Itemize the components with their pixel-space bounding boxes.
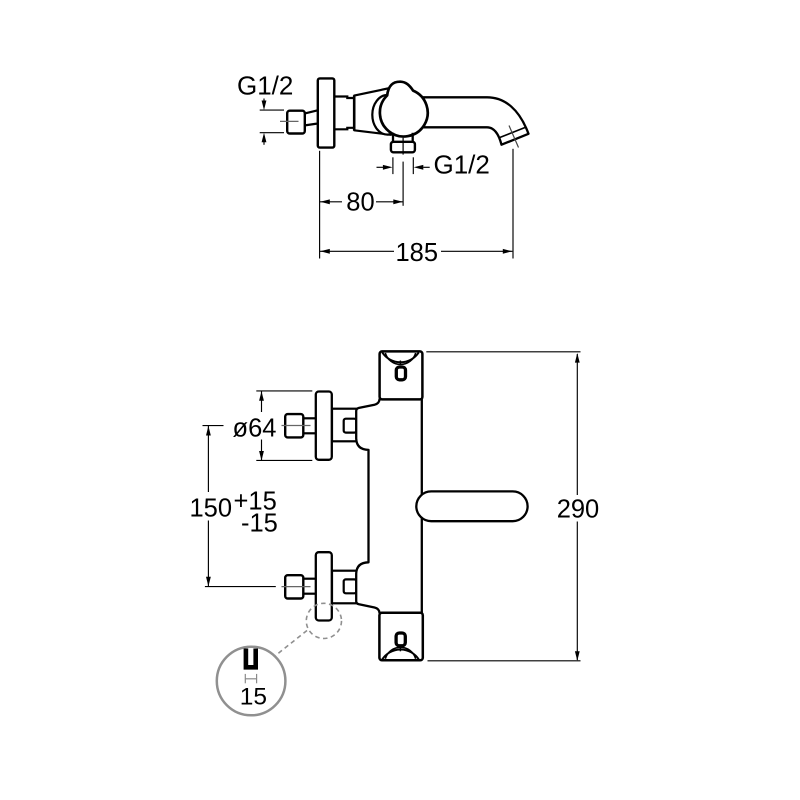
wall plate (side view) bbox=[318, 78, 335, 147]
inlet taper left of plate bbox=[305, 110, 318, 125]
svg-text:80: 80 bbox=[346, 189, 374, 217]
dimension 185 bbox=[320, 249, 512, 254]
svg-text:G1/2: G1/2 bbox=[237, 71, 293, 101]
svg-text:290: 290 bbox=[557, 496, 600, 524]
0 marking bbox=[396, 633, 405, 646]
dimension o64 bbox=[256, 391, 312, 461]
upper union connector tube bbox=[332, 409, 357, 442]
G1/2 dimension ticks and arrows bbox=[260, 99, 284, 145]
spout bbox=[414, 97, 529, 147]
dashed leader line bbox=[276, 631, 308, 656]
dome arcs (mirrored) bbox=[382, 649, 418, 659]
knob (side view) bbox=[380, 82, 428, 137]
lever handle bbox=[416, 491, 527, 521]
extension lines at outlet bbox=[393, 157, 413, 206]
section hatch line bbox=[509, 126, 519, 148]
0 marking bbox=[396, 367, 405, 380]
outlet nut bbox=[391, 142, 415, 153]
15 ticks bbox=[245, 674, 256, 683]
wall clearance U profile bbox=[246, 649, 256, 668]
dimension 80 bbox=[320, 199, 403, 204]
upper escutcheon bbox=[316, 392, 332, 460]
upper centre line dash bbox=[282, 425, 311, 427]
svg-text:150: 150 bbox=[190, 494, 233, 522]
inlet fitting square bbox=[287, 111, 305, 134]
upper check-valve square bbox=[344, 419, 357, 433]
lower union connector tube bbox=[332, 571, 357, 604]
svg-text:ø64: ø64 bbox=[233, 414, 277, 442]
extension line right (spout end) bbox=[512, 149, 514, 259]
dimension 290 bbox=[426, 352, 580, 661]
lower centre line dash bbox=[282, 586, 311, 588]
outlet centre line bbox=[402, 138, 404, 155]
upper fitting square bbox=[285, 414, 303, 437]
rear ellipse of knob joint bbox=[372, 95, 402, 135]
extension line left (wall face) bbox=[319, 151, 321, 259]
lower check-valve square bbox=[344, 579, 357, 593]
lower fitting square bbox=[285, 575, 303, 598]
outlet stub under knob bbox=[393, 133, 413, 142]
lower escutcheon bbox=[316, 552, 332, 620]
valve body cylinder behind wall plate bbox=[334, 97, 354, 130]
bottom knob block bbox=[379, 613, 422, 661]
dome arcs bbox=[382, 353, 418, 363]
top knob block bbox=[380, 351, 423, 399]
upper stub bbox=[303, 418, 317, 433]
detail circle bbox=[217, 647, 286, 716]
svg-text:15: 15 bbox=[240, 684, 267, 711]
svg-text:-15: -15 bbox=[241, 509, 278, 537]
dimension 150 +15/-15 bbox=[203, 426, 276, 587]
lower stub bbox=[303, 579, 317, 594]
aerator band line bbox=[499, 128, 526, 139]
G1/2 outlet arrows and label bbox=[377, 165, 430, 170]
inlet centre line dash bbox=[280, 120, 299, 122]
svg-text:G1/2: G1/2 bbox=[434, 149, 490, 179]
flange line bbox=[353, 96, 356, 131]
svg-text:185: 185 bbox=[396, 239, 439, 267]
dashed detail indicator circle bbox=[306, 603, 341, 638]
mixer body bbox=[356, 399, 422, 613]
taper cone between flange and knob bbox=[354, 88, 391, 135]
